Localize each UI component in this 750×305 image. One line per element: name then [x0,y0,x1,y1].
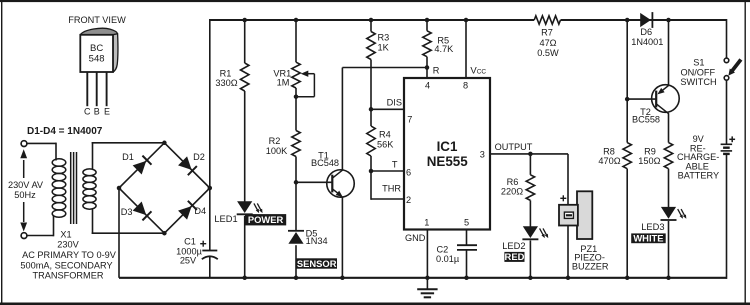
pin number 1 [424,218,429,228]
C1 plus sign [200,241,206,247]
label T1 BC548 [311,150,339,168]
diode D2 [178,156,197,175]
label R4 56K [377,130,394,150]
junction D5 bottom rail [294,276,299,281]
svg-text:220Ω: 220Ω [501,187,523,197]
wire top rail corner to switch [726,19,728,58]
junction R8 bottom rail [625,276,630,281]
svg-text:OUTPUT: OUTPUT [495,142,533,152]
svg-text:SENSOR: SENSOR [297,258,337,269]
svg-text:8: 8 [463,81,468,91]
svg-text:C1: C1 [184,237,196,247]
wire bottom ground rail [119,277,727,279]
label T2 BC558 [632,107,660,125]
label LED2 [502,241,525,251]
junction D6 cathode node [666,18,671,23]
svg-text:0.5W: 0.5W [537,48,559,58]
label X1 230V [57,229,79,249]
svg-text:ON/OFF: ON/OFF [680,68,715,78]
label D4 [194,206,206,216]
pin number 2 [406,195,411,205]
potentiometer VR1 [292,62,300,88]
label LED1 [214,214,237,224]
pin number 7 [407,115,412,125]
terminal (top AC input) [21,141,27,147]
diode D1 [133,156,152,175]
wire R3-R4 branch [370,20,372,200]
svg-text:5: 5 [464,218,469,228]
junction T1 base node [294,180,299,185]
label PZ1 PIEZO-BUZZER [572,244,609,271]
label VR1 1M [273,68,291,87]
pin number 6 [406,168,411,178]
svg-text:1: 1 [424,218,429,228]
label C1 1000u 25V [176,237,202,266]
svg-text:THR: THR [382,184,401,194]
package leg E [106,72,108,106]
resistor R8 [623,143,631,169]
svg-text:548: 548 [89,54,105,65]
svg-text:500mA, SECONDARY: 500mA, SECONDARY [20,260,112,270]
svg-text:0.01µ: 0.01µ [436,254,460,264]
svg-text:FRONT VIEW: FRONT VIEW [68,15,126,25]
wire T2 base [627,98,656,100]
wire pin 5 to C2 [466,230,468,278]
wire T1 collector to reset node [342,68,427,171]
label TRANSFORMER [33,271,104,281]
resistor R1 [241,63,249,91]
svg-text:LED1: LED1 [214,214,237,224]
junction bridge right corner [208,186,213,191]
badge WHITE [631,233,666,244]
resistor R2 [292,131,300,157]
bridge wire bottom-right edge [164,188,209,233]
label LED3 [641,222,664,232]
svg-text:R: R [433,66,440,76]
resistor R4 [367,126,375,156]
junction T1 emitter bottom rail [340,276,345,281]
junction trigger node [369,169,374,174]
label R8 470ohm [598,147,620,166]
junction output node [528,152,533,157]
junction C2 bottom rail [464,276,469,281]
wire positive node vertical (bridge + to rails) [209,19,211,278]
label R [433,66,440,76]
label 230V AV 50Hz [8,180,44,200]
junction LED3 bottom rail [666,276,671,281]
junction R3 top [369,18,374,23]
svg-text:7: 7 [407,115,412,125]
svg-text:RED: RED [505,251,525,262]
svg-text:R4: R4 [379,130,391,140]
wire top supply rail (left of R7) [210,19,534,21]
svg-text:6: 6 [406,168,411,178]
svg-text:E: E [104,107,110,117]
svg-text:BUZZER: BUZZER [572,261,609,271]
wire VR1-R2-D5 branch [295,20,297,278]
svg-text:R2: R2 [269,136,281,146]
package leg B [96,72,98,106]
label R3 1K [378,33,390,53]
svg-text:R6: R6 [507,177,519,187]
label D2 [193,152,205,162]
svg-text:230V AV: 230V AV [8,180,44,190]
svg-text:D1: D1 [122,152,134,162]
svg-text:230V: 230V [57,239,79,249]
op-amp timer IC1 NE555 body [404,78,490,230]
LED3 [661,207,687,220]
LED1 [237,201,263,214]
label OUTPUT [495,142,533,152]
label GND [405,233,426,243]
junction LED1 bottom rail [242,276,247,281]
svg-text:2: 2 [406,195,411,205]
svg-text:POWER: POWER [248,214,284,225]
wire R8 branch [626,99,628,278]
wire pin 7 lead (DIS) [371,108,404,110]
piezo buzzer PZ1 [559,191,592,239]
junction buzzer bottom rail [566,276,571,281]
svg-text:X1: X1 [60,229,71,239]
wire pin 6 lead (T) [371,170,404,172]
wire T2 emitter to D6 node [668,20,670,86]
svg-text:BC548: BC548 [311,158,339,168]
svg-text:C: C [84,107,91,117]
resistor R6 [526,175,534,201]
label D5 1N34 [306,228,328,246]
wire terminal to primary bottom [27,216,54,237]
svg-text:25V: 25V [180,256,197,266]
junction bridge top corner [162,141,167,146]
junction R5 top [425,18,430,23]
svg-text:1N34: 1N34 [306,236,328,246]
pin number 8 [463,81,468,91]
svg-text:WHITE: WHITE [633,233,663,244]
svg-text:1N4001: 1N4001 [631,37,663,47]
transformer X1 secondary winding [83,169,96,209]
svg-text:SWITCH: SWITCH [680,77,716,87]
svg-text:GND: GND [405,233,426,243]
label DIS [387,98,402,108]
pin number 4 [425,81,430,91]
junction bridge bottom corner [162,231,167,236]
diode D6 [640,12,652,28]
wire base branch vertical [626,20,628,99]
svg-text:D6: D6 [640,27,652,37]
label 9V RECHARGEABLE BATTERY [677,134,719,180]
label THR [382,184,401,194]
badge SENSOR [296,258,337,269]
pin number 5 [464,218,469,228]
pin number 3 [480,150,485,160]
svg-text:4: 4 [425,81,430,91]
svg-text:56K: 56K [377,139,394,149]
resistor R5 [423,31,431,57]
junction pin1 bottom rail [425,276,430,281]
svg-text:470Ω: 470Ω [598,156,620,166]
label IC1 NE555 [427,139,468,169]
label S1 ON/OFF SWITCH [680,58,716,88]
label R5 4.7K [434,35,454,54]
buzzer plus sign [560,195,566,201]
svg-text:47Ω: 47Ω [539,38,556,48]
svg-text:C2: C2 [437,245,449,255]
VR1 wiper arrow [296,71,314,97]
diode D5 [288,231,304,244]
svg-text:1K: 1K [378,42,390,52]
badge RED [504,251,524,262]
junction LED2 bottom rail [528,276,533,281]
svg-text:BATTERY: BATTERY [678,171,720,181]
svg-text:TRANSFORMER: TRANSFORMER [33,271,104,281]
svg-text:D1-D4 = 1N4007: D1-D4 = 1N4007 [27,126,103,137]
label D1 [122,152,134,162]
svg-text:T: T [392,160,398,170]
wire pin 1 to ground rail [426,230,428,278]
wire T2 collector to R9 [668,114,670,143]
svg-text:R7: R7 [541,28,553,38]
resistor R9 [664,143,672,169]
label R2 100K [266,136,288,156]
junction R1 top [242,18,247,23]
wire terminal to primary top [27,143,56,161]
wire output to buzzer [567,154,569,278]
svg-text:NE555: NE555 [427,154,468,169]
wire T1 emitter to ground rail [341,197,343,278]
junction Vcc top [464,18,469,23]
svg-text:VCC: VCC [470,65,486,76]
ground symbol [417,278,437,298]
capacitor C1 (electrolytic) [202,251,218,260]
wire R1 branch [244,20,246,278]
wire pin 8 lead (Vcc) [465,20,467,78]
junction D6 anode node [625,18,630,23]
battery 9V [721,144,733,154]
svg-text:DIS: DIS [387,98,402,108]
label R9 150ohm [638,147,660,166]
svg-text:R3: R3 [378,33,390,43]
svg-text:1M: 1M [277,78,290,88]
label AC PRIMARY TO 0-9V [22,250,117,260]
package leg C [86,72,88,106]
svg-text:LED3: LED3 [641,222,664,232]
resistor R3 [367,32,375,60]
svg-text:150Ω: 150Ω [638,156,660,166]
bridge wire left-top edge [119,143,164,188]
svg-text:3: 3 [480,150,485,160]
svg-text:D2: D2 [193,152,205,162]
label T [392,160,398,170]
svg-text:BC: BC [90,43,103,54]
svg-text:330Ω: 330Ω [215,78,237,88]
wire battery to bottom rail corner [726,154,728,279]
wire top supply rail (R7 to D6 to corner) [561,19,727,21]
diode D4 [178,201,197,220]
diode D3 [133,202,152,221]
label R6 220ohm [501,177,523,197]
label D6 1N4001 [631,27,663,47]
label FRONT VIEW [68,15,126,25]
junction VR1 top [294,18,299,23]
svg-text:S1: S1 [693,58,704,68]
svg-text:D4: D4 [194,206,206,216]
svg-text:D3: D3 [121,207,133,217]
wire T1 base [296,181,332,183]
junction T2 base node [625,97,630,102]
svg-text:50Hz: 50Hz [14,190,36,200]
wire pin 3 output [490,153,568,155]
junction DIS node [369,107,374,112]
wire secondary top to bridge AC node [92,142,165,170]
label C2 0.01u [436,245,460,265]
wire switch to battery [726,81,728,145]
svg-text:LED2: LED2 [502,241,525,251]
wire pin 2 lead (THR) [371,198,404,200]
svg-text:100K: 100K [266,146,288,156]
note D1-D4 = 1N4007 [27,126,103,137]
junction VR1 wiper [294,94,299,99]
label R7 47ohm 0.5W [537,28,559,58]
label 500mA, SECONDARY [20,260,112,270]
transistor T1 BC548 [327,170,355,198]
LED2 [522,226,548,239]
transformer X1 primary winding [52,159,66,218]
svg-text:B: B [94,107,100,117]
bridge wire top-right edge [164,143,209,188]
label R1 330ohm [215,68,237,88]
bridge wire left-bottom edge [119,188,164,233]
junction bridge left corner [117,186,122,191]
230V AC arrow down [20,202,27,232]
svg-text:R1: R1 [220,68,232,78]
wire R9 to LED3 [668,169,670,278]
230V AC arrow up [20,149,27,178]
switch S1 on/off [724,58,741,80]
resistor R7 [534,16,560,24]
svg-text:4.7K: 4.7K [434,44,454,54]
wire secondary bottom to bridge AC node [92,209,165,235]
pin letters C B E [84,107,110,117]
battery plus sign [729,136,735,142]
wire bridge negative to bottom rail [118,188,120,278]
terminal (bottom AC input) [21,233,27,239]
wire R5 branch [426,20,428,78]
svg-text:AC PRIMARY TO 0-9V: AC PRIMARY TO 0-9V [22,250,117,260]
label D3 [121,207,133,217]
transistor T2 BC558 [652,85,680,114]
svg-text:IC1: IC1 [437,139,458,154]
svg-text:BC558: BC558 [632,115,660,125]
junction reset node R [425,65,430,70]
transistor package front view (TO-92 BC548) [80,28,118,72]
capacitor C2 [457,245,477,250]
badge POWER [245,214,286,225]
wire R6-LED2 branch [529,154,531,278]
transformer core [71,152,77,224]
label Vcc [470,65,486,76]
